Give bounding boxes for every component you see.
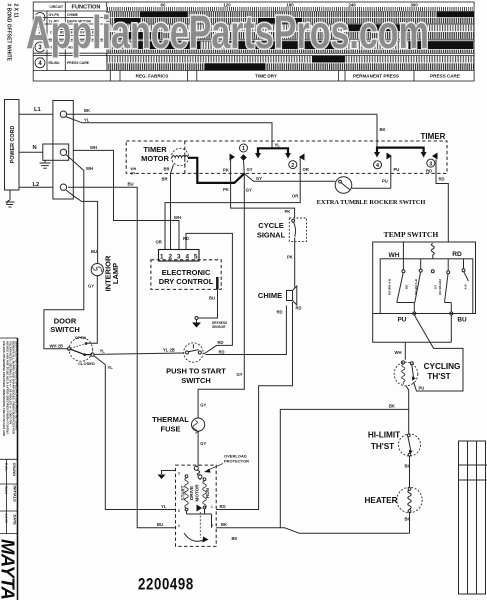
overload protector xyxy=(194,454,249,479)
ruler numbers 60 120 180 240 300 xyxy=(161,2,419,7)
svg-text:RD: RD xyxy=(426,169,432,174)
wire L2 in xyxy=(19,186,53,188)
svg-text:BU: BU xyxy=(91,249,97,254)
svg-text:1: 1 xyxy=(242,146,245,152)
row2 mini cell boxes xyxy=(57,30,98,36)
chart table header CIRCUIT / FUNCTION xyxy=(49,5,100,11)
svg-text:GY: GY xyxy=(237,372,243,377)
svg-text:WH: WH xyxy=(86,166,93,171)
push to start switch xyxy=(166,343,226,385)
timer chart frame xyxy=(33,2,474,81)
svg-text:GY: GY xyxy=(247,167,253,172)
svg-text:2: 2 xyxy=(291,163,294,169)
svg-text:FUSE: FUSE xyxy=(160,424,180,433)
wire BR timer motor to dry control pin 2 xyxy=(162,166,171,250)
wire GY thermal fuse to motor xyxy=(197,431,199,466)
svg-text:BU: BU xyxy=(209,295,215,300)
svg-text:OR: OR xyxy=(303,167,309,172)
cycling thermostat xyxy=(394,361,460,386)
power cord box xyxy=(5,100,20,191)
svg-text:YL 2B: YL 2B xyxy=(163,347,175,352)
terminal block xyxy=(43,101,74,200)
drive motor internals xyxy=(178,467,213,543)
power cord strain ground xyxy=(6,190,15,207)
svg-text:# BOND OFFSET WHITE: # BOND OFFSET WHITE xyxy=(6,4,12,62)
svg-text:BU: BU xyxy=(128,182,134,187)
svg-text:2: 2 xyxy=(178,524,180,528)
circuit row 3 circle xyxy=(35,42,45,52)
svg-text:PK: PK xyxy=(285,209,291,214)
left margin note # BOND OFFSET WHITE 2 X 11 xyxy=(6,4,19,62)
svg-text:PK: PK xyxy=(223,167,229,172)
svg-text:GY: GY xyxy=(246,187,252,192)
svg-text:2 X 11: 2 X 11 xyxy=(13,4,19,18)
svg-text:GY: GY xyxy=(200,402,206,407)
svg-text:REG. FABRICS: REG. FABRICS xyxy=(136,74,169,79)
svg-text:BK: BK xyxy=(405,516,411,521)
wire L1 in xyxy=(19,113,53,115)
wire YL door switch to push-to-start xyxy=(94,347,184,354)
svg-text:RD-BU: RD-BU xyxy=(49,61,60,65)
svg-text:WH: WH xyxy=(395,350,402,355)
svg-text:PRESS CARE: PRESS CARE xyxy=(430,74,460,79)
wire RD chime to drive motor xyxy=(216,302,301,510)
svg-text:ELECTRONIC: ELECTRONIC xyxy=(162,268,211,277)
timer contact 4-3 BK bus xyxy=(374,148,438,160)
wire PK cycle signal to chime xyxy=(287,238,295,288)
wire WH temp switch to cycling thst xyxy=(373,314,452,360)
hatch band row2a xyxy=(107,25,474,32)
heater xyxy=(364,487,422,512)
svg-text:BK: BK xyxy=(389,404,395,409)
svg-text:RD-WH A-B: RD-WH A-B xyxy=(388,278,392,295)
svg-text:TIME DRY: TIME DRY xyxy=(255,74,277,79)
temp switch contacts xyxy=(397,269,469,312)
svg-text:4: 4 xyxy=(211,524,213,528)
svg-text:3: 3 xyxy=(178,472,180,476)
part number 2200498 xyxy=(138,575,194,594)
svg-text:TIMER: TIMER xyxy=(421,132,446,141)
svg-text:1-2-90: 1-2-90 xyxy=(4,514,8,523)
hatch band row3b xyxy=(107,50,474,53)
svg-text:PERMANENT PRESS: PERMANENT PRESS xyxy=(353,74,399,79)
svg-text:RD: RD xyxy=(183,236,189,241)
svg-text:RD: RD xyxy=(452,251,462,258)
electronic dry control xyxy=(151,250,221,290)
hi-limit thermostat xyxy=(368,430,421,456)
timer box xyxy=(126,132,447,174)
chime xyxy=(258,286,297,305)
wire BK L1 to timer xyxy=(67,108,377,114)
svg-text:RD: RD xyxy=(218,340,224,345)
svg-text:BR: BR xyxy=(164,166,170,171)
svg-text:BK: BK xyxy=(221,522,227,527)
svg-text:BK: BK xyxy=(84,108,90,113)
svg-text:BR: BR xyxy=(162,176,168,181)
circuit row 1 circle xyxy=(35,13,45,23)
svg-text:OPEN: OPEN xyxy=(75,335,86,340)
svg-text:LAMP: LAMP xyxy=(111,263,120,284)
svg-text:DRIVE: DRIVE xyxy=(189,486,194,500)
svg-text:RD-BU A-B: RD-BU A-B xyxy=(414,278,418,295)
chart bottom strip dividers xyxy=(110,71,414,82)
wire thick timer motor to contact 1 junction xyxy=(188,158,244,183)
svg-text:SIGNAL: SIGNAL xyxy=(257,231,286,240)
wire RD drive motor to chime drop xyxy=(216,509,258,511)
circuit row 4 circle xyxy=(35,58,45,68)
wire BK drop to timer contact 4 xyxy=(377,114,386,147)
svg-text:THERMAL: THERMAL xyxy=(152,415,189,424)
wire BU L2 to drive motor xyxy=(68,182,176,528)
svg-text:HI-LIMIT: HI-LIMIT xyxy=(368,430,400,439)
svg-text:RD: RD xyxy=(439,176,445,181)
wire YL L1 to timer contact 1 xyxy=(66,117,280,149)
drive motor box xyxy=(176,465,217,546)
svg-text:GY: GY xyxy=(434,285,438,289)
timer contact 1 xyxy=(230,144,248,174)
svg-text:MAYTAG: MAYTAG xyxy=(0,539,19,600)
svg-text:OR: OR xyxy=(156,239,162,244)
hatch band row4a xyxy=(107,56,474,63)
svg-text:WH: WH xyxy=(174,215,181,220)
wire OR contact2 to dry control pin 1 xyxy=(156,167,309,250)
svg-text:PROTECTOR: PROTECTOR xyxy=(224,458,249,463)
svg-text:BU: BU xyxy=(157,522,163,527)
wire BK branch to drive motor xyxy=(280,404,408,528)
hatch band row3a xyxy=(107,42,474,50)
wire PU temp switch loop to cycling thst xyxy=(414,315,464,391)
svg-text:RD: RD xyxy=(296,305,302,310)
hatch band row2b xyxy=(107,32,474,39)
thermal fuse xyxy=(152,402,206,446)
extra tumble rocker switch xyxy=(317,177,426,206)
svg-text:WH: WH xyxy=(131,167,137,171)
temp switch xyxy=(373,230,476,314)
wire GY contact1 to rocker switch xyxy=(244,167,335,181)
timer contact 1-2 YL bus xyxy=(255,148,291,158)
svg-text:AppliancePartsPros.com: AppliancePartsPros.com xyxy=(26,6,429,58)
svg-text:MOTOR: MOTOR xyxy=(194,484,199,502)
svg-text:1: 1 xyxy=(211,505,213,509)
svg-text:N: N xyxy=(33,145,37,151)
svg-text:B.A.L: B.A.L xyxy=(4,487,8,495)
chart black bars xyxy=(115,12,474,71)
svg-text:SWITCH: SWITCH xyxy=(181,376,211,385)
svg-text:RD-WH-BU: RD-WH-BU xyxy=(438,279,442,295)
row wire codes and functions xyxy=(49,13,98,65)
svg-text:DATE: DATE xyxy=(13,515,18,526)
svg-text:BU: BU xyxy=(457,316,467,323)
svg-text:GY: GY xyxy=(88,284,94,289)
wire GY lamp to door switch xyxy=(88,276,98,344)
interior lamp xyxy=(91,255,120,291)
temp switch internal wires xyxy=(403,242,463,271)
svg-text:YL: YL xyxy=(84,118,90,123)
ground (neutral bond) xyxy=(40,160,51,168)
svg-text:INITIALS: INITIALS xyxy=(13,486,18,503)
svg-text:WH: WH xyxy=(90,145,97,150)
hatch band row1a xyxy=(107,12,474,18)
svg-text:A-B: A-B xyxy=(464,284,468,290)
svg-text:GY: GY xyxy=(200,441,206,446)
wire cycling thst to hi-limit xyxy=(406,386,409,434)
wire BK heater bottom xyxy=(405,512,411,533)
wire GY contact1 down to thermal fuse xyxy=(198,174,252,419)
svg-text:CHIME: CHIME xyxy=(258,291,282,300)
svg-text:BU: BU xyxy=(405,285,409,289)
svg-text:MOTOR: MOTOR xyxy=(141,154,169,163)
svg-text:EXTRA TUMBLE ROCKER SWITCH: EXTRA TUMBLE ROCKER SWITCH xyxy=(317,199,426,206)
timer contact 3 xyxy=(426,159,448,242)
svg-text:BK: BK xyxy=(380,127,386,132)
svg-text:TH'ST: TH'ST xyxy=(371,442,394,451)
svg-text:BK: BK xyxy=(232,536,238,541)
svg-text:PK: PK xyxy=(287,255,293,260)
dryness sensor xyxy=(192,317,227,329)
watermark AppliancePartsPros.com xyxy=(26,6,429,58)
svg-text:CYCLING: CYCLING xyxy=(424,362,461,371)
cycle signal switch xyxy=(257,218,307,241)
svg-text:WH 2B: WH 2B xyxy=(50,343,64,348)
svg-text:CYCLE: CYCLE xyxy=(258,221,283,230)
svg-text:PU: PU xyxy=(398,316,407,323)
wire RD chime to push-to-start xyxy=(206,306,287,355)
svg-text:HEATER: HEATER xyxy=(364,496,397,505)
svg-text:CLOSED: CLOSED xyxy=(78,361,95,366)
svg-text:GY: GY xyxy=(256,176,262,181)
svg-text:L1: L1 xyxy=(34,107,42,113)
ruler tick comb xyxy=(107,7,474,11)
svg-text:PU: PU xyxy=(419,386,425,391)
wire N in xyxy=(19,151,43,153)
timer motor xyxy=(131,145,189,176)
svg-text:SENSOR: SENSOR xyxy=(212,325,226,329)
wire BK drive motor to heater xyxy=(216,522,409,541)
timer contact 4 xyxy=(374,157,400,188)
svg-text:R.A.L.: R.A.L. xyxy=(4,463,8,472)
svg-text:TEMP SWITCH: TEMP SWITCH xyxy=(384,230,439,239)
svg-text:RD: RD xyxy=(220,504,226,509)
svg-text:YL: YL xyxy=(100,349,106,354)
svg-text:4: 4 xyxy=(376,163,379,169)
bottom right title block corner xyxy=(459,441,487,594)
wire BU dry control to dryness sensor xyxy=(198,289,218,318)
svg-text:BK: BK xyxy=(405,463,411,468)
svg-text:PK: PK xyxy=(223,187,229,192)
temp switch bias resistor xyxy=(431,244,434,259)
svg-text:TH'ST: TH'ST xyxy=(427,372,450,381)
wire BU L2 to interior lamp xyxy=(66,190,98,264)
svg-text:PRESS CARE: PRESS CARE xyxy=(67,61,90,65)
svg-text:5: 5 xyxy=(178,509,180,513)
svg-text:SWITCH: SWITCH xyxy=(50,325,80,334)
temp switch rotated contact labels xyxy=(388,278,468,295)
svg-text:RD: RD xyxy=(219,350,225,355)
svg-text:OR: OR xyxy=(292,193,298,198)
door switch xyxy=(50,317,95,366)
wire WH N to door switch xyxy=(44,155,93,349)
svg-text:PU: PU xyxy=(394,167,400,172)
svg-text:PU: PU xyxy=(382,178,388,183)
wire PK contact1 wiper to cycle signal xyxy=(223,167,295,218)
chart cycle names xyxy=(136,74,460,79)
svg-text:POWER CORD: POWER CORD xyxy=(10,126,16,164)
hatch band row4b xyxy=(107,63,474,70)
svg-text:YL: YL xyxy=(108,365,114,370)
svg-text:RD: RD xyxy=(277,309,283,314)
svg-text:WH: WH xyxy=(389,252,400,259)
svg-text:YL: YL xyxy=(161,504,167,509)
wire YL door switch to drive motor xyxy=(94,356,176,510)
wire BK hi-limit to heater xyxy=(405,456,411,487)
svg-text:3: 3 xyxy=(429,161,432,167)
svg-text:DRAWN: DRAWN xyxy=(12,463,16,476)
svg-text:YL: YL xyxy=(275,142,281,147)
svg-text:2200498: 2200498 xyxy=(138,575,194,594)
left title block xyxy=(0,338,19,600)
svg-text:DRY CONTROL: DRY CONTROL xyxy=(159,277,214,286)
svg-text:PUSH TO START: PUSH TO START xyxy=(166,367,226,376)
timer contact 2 xyxy=(289,154,305,174)
hatch band row1b xyxy=(107,18,474,23)
svg-text:GY: GY xyxy=(131,172,137,176)
wire WH N to dry control xyxy=(73,145,181,250)
temp switch bottom terminals PU BU xyxy=(398,312,467,323)
circuit row 2 circle xyxy=(35,27,45,37)
svg-text:TIMER: TIMER xyxy=(143,145,167,154)
svg-text:RUN: RUN xyxy=(205,487,210,498)
drive motor ground xyxy=(158,471,176,480)
wire RD dry control pin4 to push-to-start xyxy=(183,233,232,354)
svg-text:SURFACES PER STANDARD SPECIFIC: SURFACES PER STANDARD SPECIFICATION SHEE… xyxy=(15,341,19,430)
